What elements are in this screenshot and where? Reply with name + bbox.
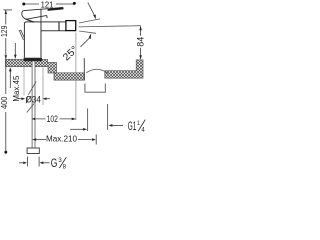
svg-text:3: 3 <box>58 157 62 164</box>
dia34 left extension line <box>23 67 25 96</box>
dimension 400 line <box>5 59 7 152</box>
lever handle top edge <box>24 9 48 11</box>
drain tailpipe walls <box>88 104 108 131</box>
dimension G1 1/4 arrows <box>70 128 83 130</box>
svg-text:8: 8 <box>63 164 67 171</box>
svg-text:129: 129 <box>0 25 9 37</box>
lever handle front blade (solid) <box>48 7 64 10</box>
G3/8 arrows <box>19 162 23 164</box>
supply hose nut <box>27 148 39 154</box>
svg-text:121: 121 <box>41 0 54 9</box>
left deck cross-section (hatched) <box>6 59 57 73</box>
svg-text:400: 400 <box>0 96 9 109</box>
svg-text:Ø34: Ø34 <box>25 94 41 104</box>
dimension Max.45 upper arrow <box>14 43 16 55</box>
dimension 121 line <box>25 3 74 5</box>
bowl front band cross-section (hatched) <box>54 73 85 80</box>
drain vertical edge line <box>83 58 85 80</box>
svg-text:84: 84 <box>135 37 145 47</box>
dimension Max.45 lower arrow <box>9 71 11 88</box>
G3/8 text <box>51 156 67 171</box>
dimension Max.210 line <box>34 139 92 141</box>
svg-text:G1: G1 <box>128 119 137 133</box>
outlet reference line <box>79 26 141 27</box>
25deg lower leader with arrow <box>81 38 90 47</box>
svg-text:Max.45: Max.45 <box>12 75 21 102</box>
dimension 121 end dots <box>22 3 25 6</box>
G3/8 extension bars <box>27 157 39 167</box>
spray angle lower line <box>79 31 96 33</box>
lever neck front vertical <box>40 9 42 22</box>
G1 1/4 text <box>128 119 146 134</box>
bidet bowl arc <box>86 69 108 73</box>
svg-text:Max.210: Max.210 <box>46 134 77 144</box>
dimension dia34 arrows <box>19 98 23 100</box>
lever handle bottom edge with tip curl <box>26 16 47 20</box>
svg-text:1: 1 <box>137 120 140 127</box>
svg-text:4: 4 <box>141 127 145 134</box>
25deg upper leader with arrow <box>88 3 94 15</box>
dimension 129 extension tick <box>3 9 12 11</box>
lever neck rear diagonal <box>25 19 34 22</box>
spray angle upper line <box>79 19 100 23</box>
spout tube <box>41 22 66 31</box>
pop-up rod <box>19 30 24 39</box>
svg-text:102: 102 <box>47 114 58 124</box>
supply pipe <box>33 61 35 148</box>
faucet base flange <box>24 58 42 62</box>
dimension 84 vertical <box>140 26 142 59</box>
faucet body <box>24 22 41 58</box>
dimension 129 line <box>5 10 7 59</box>
svg-text:G: G <box>51 156 58 170</box>
dia34 right extension line <box>42 68 44 106</box>
spout aerator box <box>66 21 76 31</box>
dia34 oblique extension slashes <box>26 82 36 113</box>
drain nut outline <box>85 84 105 93</box>
lever handle rear rounded cap <box>22 11 26 20</box>
dimension 102 line <box>36 118 76 120</box>
spout tip extension line <box>75 33 77 121</box>
right rim cross-section (hatched) <box>105 60 143 78</box>
